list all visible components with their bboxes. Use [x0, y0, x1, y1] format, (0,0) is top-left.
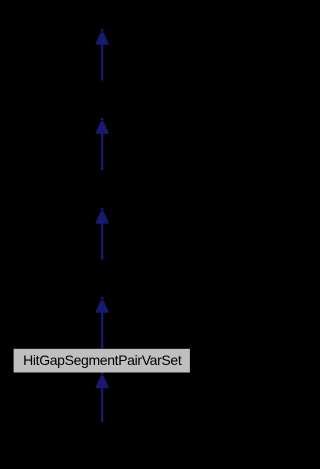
inheritance arrow 4 (into gray node) [96, 297, 109, 348]
node box HitGapSegmentPairVarSet [14, 349, 190, 373]
inheritance arrow 2 [96, 118, 109, 170]
inheritance arrow 5 (from derived node below) [96, 373, 109, 423]
node label HitGapSegmentPairVarSet [14, 349, 191, 372]
inheritance arrow 3 [96, 208, 109, 260]
inheritance arrow 1 (topmost) [96, 29, 109, 81]
